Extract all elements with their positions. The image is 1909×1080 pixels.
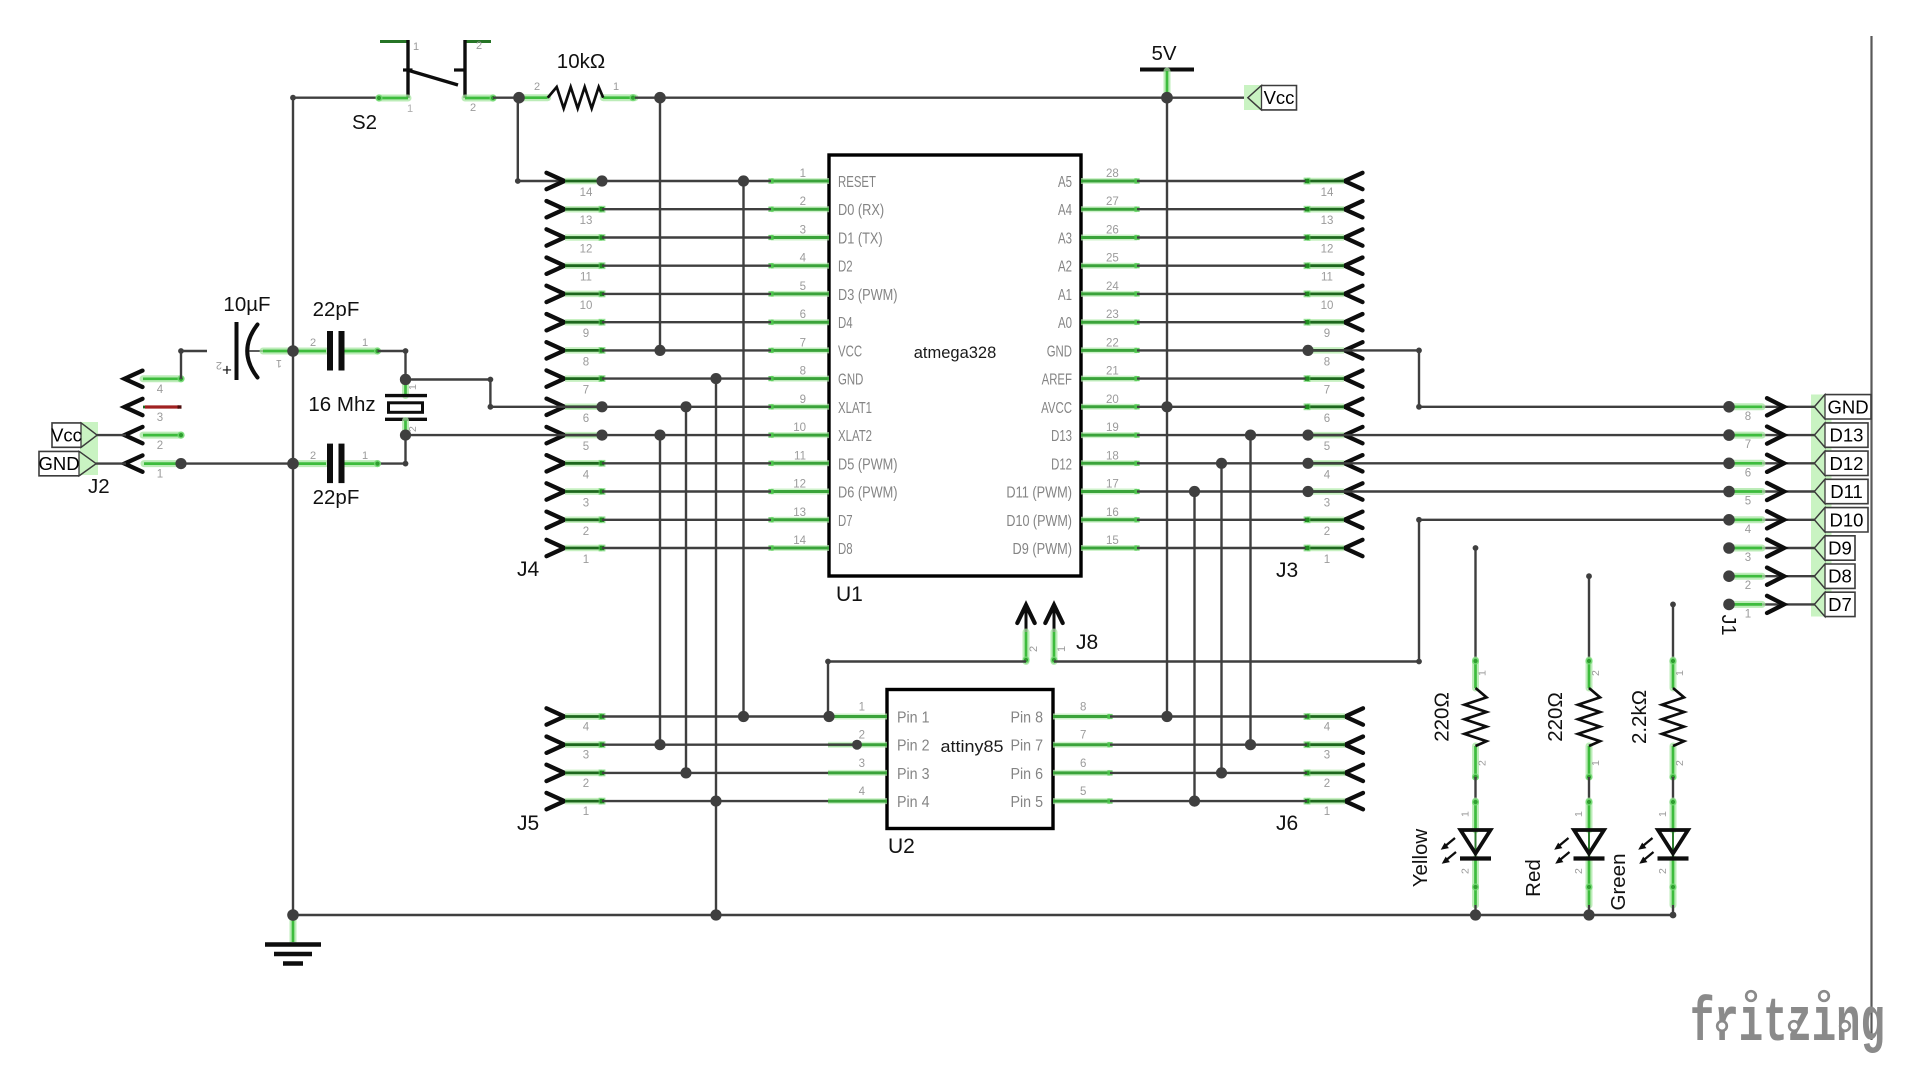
wire: GND flag to J2 pin1 (96, 462, 126, 464)
svg-text:2: 2 (157, 440, 163, 452)
U1 pin 12 D6 (PWM) lead (771, 489, 829, 495)
svg-text:A1: A1 (1058, 287, 1072, 304)
svg-text:26: 26 (1106, 225, 1119, 237)
J3 pin 13 arrow (1345, 201, 1363, 217)
svg-text:2: 2 (310, 337, 316, 349)
junction: ground symbol node (287, 909, 299, 921)
svg-text:14: 14 (580, 187, 593, 199)
svg-text:1: 1 (1477, 670, 1489, 676)
junction: RESET row at J4 pin14 (596, 175, 607, 186)
svg-text:2: 2 (534, 81, 540, 93)
U1 pin 25 A2 lead (1081, 263, 1137, 269)
U1 pin 22 GND lead (1081, 347, 1137, 353)
svg-text:Pin 4: Pin 4 (897, 794, 930, 811)
svg-text:A2: A2 (1058, 259, 1072, 276)
wire: left rail corner to S2 pin1 (293, 96, 379, 98)
wire: Yellow column from J1 row (1473, 545, 1479, 551)
svg-text:1: 1 (407, 384, 419, 390)
svg-text:1: 1 (157, 469, 163, 481)
svg-text:D12: D12 (1051, 456, 1072, 473)
svg-text:A0: A0 (1058, 315, 1072, 332)
svg-text:J2: J2 (88, 475, 110, 498)
U2 pin 2 lead (828, 742, 887, 748)
svg-text:1: 1 (859, 702, 865, 714)
svg-text:D6 (PWM): D6 (PWM) (838, 485, 898, 502)
junction: RESET vertical at U2 pin1 row (738, 711, 749, 722)
svg-text:XLAT1: XLAT1 (838, 400, 872, 417)
svg-text:4: 4 (1324, 469, 1331, 481)
junction: D13 vertical at U2 pin7 row (1245, 739, 1256, 750)
LED LED3 Green symbol (1672, 830, 1674, 858)
J5 pin 1 arrow (547, 793, 565, 809)
svg-text:J3: J3 (1276, 559, 1298, 582)
svg-text:1: 1 (1674, 670, 1686, 676)
wire: J5 pin4 to U2 pin1 (602, 715, 828, 717)
svg-text:D8: D8 (1828, 566, 1852, 587)
svg-text:D0 (RX): D0 (RX) (838, 202, 884, 219)
crystal pin2 lead (402, 421, 409, 435)
svg-text:3: 3 (583, 750, 589, 762)
svg-text:7: 7 (1745, 439, 1751, 451)
junction: Yellow column at ground bus (1470, 909, 1481, 920)
U2 pin 5 lead (1053, 798, 1110, 804)
J6 pin 3 arrow (1345, 737, 1363, 753)
J1 pin 2 D8 wire/lead/arrow/flag (1729, 575, 1815, 577)
svg-text:2: 2 (476, 40, 482, 52)
wire: 10k to top rail right (635, 96, 660, 98)
svg-text:3: 3 (1324, 750, 1330, 762)
svg-text:D5 (PWM): D5 (PWM) (838, 456, 898, 473)
svg-text:2: 2 (1324, 778, 1330, 790)
svg-text:10: 10 (793, 422, 806, 434)
svg-text:17: 17 (1106, 479, 1119, 491)
svg-text:220Ω: 220Ω (1431, 692, 1454, 742)
svg-text:10: 10 (580, 300, 593, 312)
U1 pin 26 A3 lead (1081, 235, 1137, 241)
J1 pin 1 D7 wire/lead/arrow/flag (1729, 603, 1815, 605)
U1 pin 27 A4 lead (1081, 206, 1137, 212)
J3 pin 8 arrow (1345, 342, 1363, 358)
J4 pin 14 arrow (547, 173, 565, 189)
svg-text:GND: GND (38, 453, 79, 474)
wire: J5 pin1 to U2 pin4 (602, 800, 828, 802)
junction: D13 vertical to U2 pin7 (1245, 430, 1256, 441)
resistor R4 2.2kΩ leads (1670, 660, 1677, 688)
svg-text:2: 2 (310, 450, 316, 462)
svg-text:1: 1 (1460, 811, 1472, 817)
power symbol 5V (1140, 68, 1194, 72)
U2 pin 3 lead (828, 770, 887, 776)
svg-text:S2: S2 (352, 111, 377, 134)
svg-text:3: 3 (1745, 552, 1751, 564)
svg-text:J4: J4 (517, 558, 540, 581)
wire: D13 row J3 to flag (1306, 434, 1730, 436)
svg-text:Pin 7: Pin 7 (1011, 738, 1044, 755)
svg-text:5V: 5V (1151, 42, 1176, 65)
svg-text:2: 2 (1590, 670, 1602, 676)
svg-text:Green: Green (1607, 854, 1630, 911)
J2 pin 3 arrow (125, 399, 143, 415)
svg-text:3: 3 (1324, 498, 1330, 510)
svg-text:Pin 8: Pin 8 (1011, 710, 1044, 727)
svg-text:2.2kΩ: 2.2kΩ (1628, 690, 1651, 744)
svg-text:18: 18 (1106, 450, 1119, 462)
J3 pin 14 arrow (1345, 173, 1363, 189)
svg-text:11: 11 (794, 450, 806, 462)
wire: left vertical rail (Vcc/GND column x=293) (292, 98, 294, 915)
svg-text:2: 2 (1745, 580, 1751, 592)
U1 pin 5 D3 (PWM) lead (771, 291, 829, 297)
U1 pin 11 D5 (PWM) lead (771, 460, 829, 466)
svg-text:12: 12 (580, 244, 593, 256)
svg-text:6: 6 (800, 309, 806, 321)
svg-text:D4: D4 (838, 315, 853, 332)
U1 pin 8 GND lead (771, 376, 829, 382)
J2 pin4 lead and wire up to cap row (143, 375, 181, 382)
svg-text:1: 1 (800, 168, 806, 180)
svg-text:1: 1 (1324, 806, 1330, 818)
LED LED2 Red symbol (1588, 830, 1590, 858)
svg-text:1: 1 (362, 450, 368, 462)
J5 pin 4 arrow (547, 708, 565, 724)
LED LED3 Green leads (1670, 801, 1677, 830)
J1 pin 4 D10 wire/lead/arrow/flag (1729, 519, 1815, 521)
svg-text:7: 7 (800, 337, 806, 349)
svg-text:8: 8 (1324, 356, 1330, 368)
junction: D11 vertical to U2 pin5 (1189, 486, 1200, 497)
svg-text:2: 2 (1674, 760, 1686, 766)
junction: wire end on U2 pin2 lead (852, 740, 862, 750)
fritzing logo (1690, 988, 1885, 1059)
junction: XLAT1 row at J4 pin6 (596, 401, 607, 412)
J4 pin 5 arrow (547, 427, 565, 443)
svg-text:Vcc: Vcc (1264, 87, 1295, 108)
svg-text:D11 (PWM): D11 (PWM) (1006, 485, 1072, 502)
svg-text:VCC: VCC (838, 343, 862, 360)
junction: D11 vertical at U2 pin5 row (1189, 796, 1200, 807)
resistor 10k leads (521, 94, 548, 101)
svg-text:D8: D8 (838, 541, 853, 558)
svg-text:12: 12 (793, 479, 806, 491)
svg-text:AREF: AREF (1042, 372, 1072, 389)
junction: AVCC row crossing 5V vertical (1161, 401, 1172, 412)
svg-text:4: 4 (583, 722, 590, 734)
svg-text:D9 (PWM): D9 (PWM) (1013, 541, 1073, 558)
wires: U1 right pins to J3 (1137, 180, 1306, 182)
svg-text:4: 4 (157, 384, 164, 396)
junction: XLAT1 vertical at U2 pin3 row (680, 767, 691, 778)
J1 pin 7 D13 wire/lead/arrow/flag (1729, 434, 1815, 436)
junction: D12 vertical at U2 pin6 row (1216, 767, 1227, 778)
wire: S2 pin2 to 10k junction (493, 96, 519, 98)
svg-text:6: 6 (1324, 413, 1330, 425)
junction: VCC column top (654, 92, 666, 104)
junction: S2/R1 node (513, 92, 525, 104)
wire: crystal node to J4 pin5 (XLAT2) (406, 434, 603, 436)
U2 pin 8 lead (1053, 714, 1110, 720)
J2 pin1 lead and wire to GND column (144, 460, 179, 467)
wire: 5V node to Vcc flag (1167, 96, 1248, 98)
J6 pin 1 arrow (1345, 793, 1363, 809)
U1 pin 2 D0 (RX) lead (771, 206, 829, 212)
svg-text:3: 3 (859, 758, 865, 770)
wires: J4 rows to U1 left pins (602, 180, 771, 182)
U2 pin 4 lead (828, 798, 887, 804)
frame right border line (1870, 36, 1872, 1040)
resistor R3 220Ω leads (1586, 660, 1593, 688)
U1 pin 24 A1 lead (1081, 291, 1137, 297)
svg-text:220Ω: 220Ω (1544, 692, 1567, 742)
wire: J5 pin2 to U2 pin3 (602, 772, 828, 774)
resistor R2 220Ω leads (1472, 660, 1479, 688)
svg-text:1: 1 (1590, 760, 1602, 766)
svg-text:D10 (PWM): D10 (PWM) (1006, 513, 1072, 530)
svg-text:8: 8 (800, 366, 806, 378)
svg-text:19: 19 (1106, 422, 1119, 434)
svg-text:28: 28 (1106, 168, 1119, 180)
junction: GND row / 22pF bottom node (287, 458, 299, 470)
J4 pin 6 arrow (547, 399, 565, 415)
junction: GND row at J3 pin8 (1302, 345, 1313, 356)
svg-text:D12: D12 (1830, 453, 1864, 474)
svg-text:D11: D11 (1830, 481, 1863, 502)
svg-text:15: 15 (1106, 535, 1119, 547)
ground symbol (290, 916, 297, 942)
svg-text:D3 (PWM): D3 (PWM) (838, 287, 898, 304)
svg-text:+: + (222, 361, 232, 380)
svg-text:1: 1 (583, 806, 589, 818)
header J8 pin1 arrow (1045, 605, 1062, 623)
svg-text:8: 8 (1080, 702, 1086, 714)
svg-text:1: 1 (1745, 608, 1751, 620)
capacitor 10uF (polarized) (235, 322, 239, 380)
svg-text:atmega328: atmega328 (914, 343, 997, 362)
J1 pin 3 D9 wire/lead/arrow/flag (1729, 547, 1815, 549)
junction: crystal pin1 node (400, 374, 411, 385)
svg-text:13: 13 (1321, 215, 1334, 227)
J4 pin 1 arrow (547, 540, 565, 556)
svg-text:2: 2 (470, 102, 476, 114)
J5 pin 2 arrow (547, 765, 565, 781)
capacitor 22pF bottom plates (327, 444, 333, 484)
svg-text:16: 16 (1106, 507, 1119, 519)
crystal pin1 lead (402, 381, 409, 396)
10uF pin1 lead to junction (263, 348, 291, 355)
wire: R2 to LED1 Yellow (1474, 777, 1476, 801)
svg-text:7: 7 (1324, 385, 1330, 397)
U1 pin 10 XLAT2 lead (771, 432, 829, 438)
svg-text:13: 13 (580, 215, 593, 227)
junction: D11 at J3 pin3 (1302, 486, 1313, 497)
svg-text:6: 6 (1080, 758, 1086, 770)
svg-text:U1: U1 (836, 583, 863, 606)
J3 pin 9 arrow (1345, 314, 1363, 330)
J5 pin 3 arrow (547, 737, 565, 753)
U2 pin 6 lead (1053, 770, 1110, 776)
switch S2 (380, 40, 408, 43)
power flag Vcc (left) (80, 422, 98, 475)
svg-text:11: 11 (1321, 272, 1333, 284)
svg-text:3: 3 (800, 225, 806, 237)
svg-text:10kΩ: 10kΩ (557, 50, 605, 73)
U1 pin 19 D13 lead (1081, 432, 1137, 438)
crystal 16 Mhz body (385, 394, 427, 397)
svg-text:D7: D7 (1828, 594, 1852, 615)
svg-text:RESET: RESET (838, 174, 876, 191)
header J8 pin2 arrow (1017, 605, 1034, 623)
U2 pin 7 lead (1053, 742, 1110, 748)
J3 pin 11 arrow (1345, 258, 1363, 274)
capacitor 22pF bottom leads (295, 460, 326, 467)
svg-text:1: 1 (583, 554, 589, 566)
wire: R4 to LED3 Green (1672, 777, 1674, 801)
svg-text:1: 1 (613, 81, 619, 93)
svg-text:4: 4 (800, 253, 807, 265)
junction: 5V node (1161, 92, 1173, 104)
svg-text:2: 2 (1573, 868, 1585, 874)
svg-text:1: 1 (362, 337, 368, 349)
J3 pin 3 arrow (1345, 483, 1363, 499)
U1 pin 14 D8 lead (771, 545, 829, 551)
capacitor 22pF top plates (327, 331, 333, 371)
U1 pin 18 D12 lead (1081, 460, 1137, 466)
wire: LED3 Green to ground bus (1672, 905, 1674, 915)
wire: 22pF top to crystal node (378, 350, 406, 352)
svg-text:AVCC: AVCC (1041, 400, 1072, 417)
U1 pin 21 AREF lead (1081, 376, 1137, 382)
svg-text:Pin 1: Pin 1 (897, 710, 930, 727)
wire: Red column from J1 row (1586, 573, 1592, 579)
svg-text:D13: D13 (1830, 425, 1864, 446)
wire: crystal node down to 22pF bottom (404, 435, 406, 464)
wire: crystal node to J4 pin6 (XLAT1) (406, 378, 491, 380)
svg-text:24: 24 (1106, 281, 1119, 293)
J4 pin 2 arrow (547, 512, 565, 528)
svg-text:1: 1 (276, 357, 282, 369)
svg-text:Pin 5: Pin 5 (1011, 794, 1044, 811)
svg-text:1: 1 (1324, 554, 1330, 566)
junction: U2 pin1 node (823, 711, 834, 722)
junction: D12 vertical to U2 pin6 (1216, 458, 1227, 469)
svg-text:1: 1 (407, 103, 413, 115)
svg-text:2: 2 (1657, 868, 1669, 874)
svg-text:5: 5 (1324, 441, 1330, 453)
J3 pin 1 arrow (1345, 540, 1363, 556)
svg-text:5: 5 (1080, 786, 1086, 798)
wire: Vcc flag to J2 pin2 (97, 434, 126, 436)
svg-text:Pin 3: Pin 3 (897, 766, 930, 783)
junction: XLAT2 vertical to U2 pin2 (654, 430, 665, 441)
svg-text:4: 4 (583, 469, 590, 481)
junction: XLAT2 row at J4 pin5 (596, 430, 607, 441)
svg-text:2: 2 (583, 778, 589, 790)
J4 pin 10 arrow (547, 286, 565, 302)
U1 pin 6 D4 lead (771, 319, 829, 325)
svg-text:4: 4 (859, 786, 866, 798)
svg-text:2: 2 (583, 526, 589, 538)
junction: 5V vertical at U2 pin8 row (1161, 711, 1172, 722)
svg-text:12: 12 (1321, 244, 1334, 256)
svg-text:14: 14 (793, 535, 806, 547)
svg-text:A5: A5 (1058, 174, 1072, 191)
J6 pin 4 arrow (1345, 708, 1363, 724)
svg-text:2: 2 (1477, 760, 1489, 766)
U1 pin 4 D2 lead (771, 263, 829, 269)
LED LED2 Red leads (1586, 801, 1593, 830)
resistor R4 2.2kΩ zigzag (1662, 688, 1684, 746)
svg-text:27: 27 (1106, 196, 1119, 208)
svg-text:8: 8 (583, 356, 589, 368)
J2 pin 2 arrow (125, 427, 143, 443)
svg-text:3: 3 (583, 498, 589, 510)
IC U2 attiny85 body (887, 690, 1053, 829)
svg-text:22pF: 22pF (313, 298, 360, 321)
LED LED1 Yellow symbol (1475, 830, 1477, 858)
J4 pin 3 arrow (547, 483, 565, 499)
svg-text:20: 20 (1106, 394, 1119, 406)
svg-text:2: 2 (859, 730, 865, 742)
svg-text:23: 23 (1106, 309, 1119, 321)
svg-text:1: 1 (1573, 811, 1585, 817)
svg-text:2: 2 (1028, 646, 1040, 652)
svg-text:7: 7 (1080, 730, 1086, 742)
junction: XLAT2 vertical at U2 pin2 row (654, 739, 665, 750)
svg-text:2: 2 (1460, 868, 1472, 874)
wire: top rail to 5V node (660, 96, 1167, 98)
svg-text:XLAT2: XLAT2 (838, 428, 872, 445)
svg-text:Pin 6: Pin 6 (1011, 766, 1044, 783)
J2 pin 1 arrow (125, 455, 143, 471)
U1 pin 7 VCC lead (771, 347, 829, 353)
U1 pin 15 D9 (PWM) lead (1081, 545, 1137, 551)
J3 pin 2 arrow (1345, 512, 1363, 528)
svg-text:2: 2 (1324, 526, 1330, 538)
svg-text:11: 11 (580, 272, 592, 284)
svg-text:U2: U2 (888, 835, 915, 858)
U1 pin 1 RESET lead (771, 178, 829, 184)
svg-text:A3: A3 (1058, 231, 1072, 248)
svg-text:attiny85: attiny85 (941, 737, 1004, 756)
junction: Red column at ground bus (1583, 909, 1594, 920)
J3 pin 7 arrow (1345, 370, 1363, 386)
svg-text:22: 22 (1106, 337, 1119, 349)
resistor R2 220Ω zigzag (1465, 688, 1487, 746)
IC U1 atmega328 body (829, 155, 1081, 576)
svg-text:1: 1 (1056, 646, 1068, 652)
U1 pin 23 A0 lead (1081, 319, 1137, 325)
svg-text:1: 1 (413, 41, 419, 53)
U1 pin 13 D7 lead (771, 517, 829, 523)
junction: GND vertical at bus (710, 909, 721, 920)
J4 pin 12 arrow (547, 229, 565, 245)
svg-text:25: 25 (1106, 253, 1119, 265)
svg-text:2: 2 (800, 196, 806, 208)
wire: junction down to J4 pin14 row (RESET net) (517, 98, 519, 181)
svg-text:4: 4 (1745, 524, 1752, 536)
wire: LED2 Red to ground bus (1588, 905, 1590, 915)
J1 pin 8 GND wire/lead/arrow/flag (1729, 406, 1815, 408)
resistor R3 220Ω zigzag (1578, 688, 1600, 746)
svg-text:6: 6 (1745, 467, 1751, 479)
wire: ground bus (293, 914, 1673, 916)
J4 pin 4 arrow (547, 455, 565, 471)
U1 pin 17 D11 (PWM) lead (1081, 489, 1137, 495)
resistor 10k zigzag (548, 87, 604, 108)
J3 pin 6 arrow (1345, 399, 1363, 415)
svg-text:D9: D9 (1828, 538, 1852, 559)
J6 pin 2 arrow (1345, 765, 1363, 781)
J3 pin 5 arrow (1345, 427, 1363, 443)
